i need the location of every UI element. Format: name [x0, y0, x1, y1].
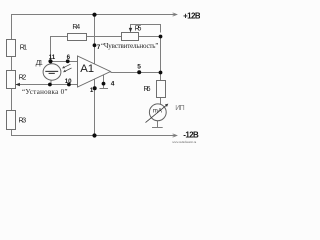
- svg-text:A1: A1: [80, 63, 94, 75]
- svg-text:+12В: +12В: [183, 11, 200, 20]
- svg-text:“Чувствительность”: “Чувствительность”: [101, 42, 158, 50]
- svg-text:R1: R1: [20, 45, 27, 52]
- svg-text:11: 11: [49, 54, 56, 61]
- svg-text:R2: R2: [19, 75, 27, 82]
- svg-text:R5: R5: [135, 26, 142, 33]
- svg-text:“Установка 0”: “Установка 0”: [22, 88, 68, 96]
- svg-text:10: 10: [65, 78, 72, 85]
- svg-text:1: 1: [90, 87, 94, 94]
- svg-text:Д1: Д1: [36, 60, 43, 67]
- svg-text:-12В: -12В: [183, 130, 199, 139]
- svg-text:4: 4: [111, 81, 115, 88]
- svg-text:www.radiofanatic.ru: www.radiofanatic.ru: [172, 140, 196, 144]
- svg-text:ИП: ИП: [175, 103, 184, 112]
- svg-text:R3: R3: [19, 118, 27, 125]
- svg-text:6: 6: [67, 54, 71, 61]
- svg-text:5: 5: [137, 63, 141, 70]
- svg-text:R6: R6: [144, 86, 151, 93]
- svg-text:R4: R4: [72, 24, 80, 31]
- svg-text:mA: mA: [153, 108, 163, 115]
